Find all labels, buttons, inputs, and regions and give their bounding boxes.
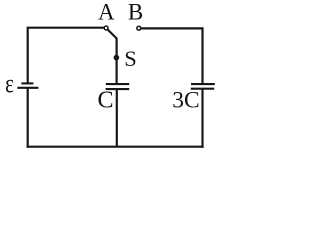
battery ε short top plate <box>21 82 33 84</box>
capacitor 3C top plate <box>191 83 215 85</box>
node A open terminal circle <box>104 26 108 30</box>
wire top-right rail and right rail upper segment <box>141 28 202 84</box>
svg-text:C: C <box>97 88 113 114</box>
wire top-left rail and left rail upper segment <box>28 28 104 84</box>
wire right rail lower segment <box>201 89 203 147</box>
switch pole dot S <box>114 55 120 61</box>
svg-text:B: B <box>128 0 143 25</box>
wire middle branch lower segment below capacitor C <box>116 90 118 147</box>
wire switch arm from A to middle branch <box>108 29 117 83</box>
node B open terminal circle <box>137 26 141 30</box>
wire left rail lower segment <box>27 89 29 148</box>
svg-text:A: A <box>98 0 115 25</box>
svg-text:S: S <box>124 46 137 71</box>
wire bottom rail <box>27 146 204 148</box>
battery ε long bottom plate <box>17 87 38 89</box>
capacitor 3C bottom plate <box>191 88 214 90</box>
capacitor C bottom plate <box>106 88 130 90</box>
capacitor C top plate <box>106 83 129 85</box>
svg-text:ε: ε <box>5 70 14 99</box>
svg-text:3C: 3C <box>172 88 199 114</box>
